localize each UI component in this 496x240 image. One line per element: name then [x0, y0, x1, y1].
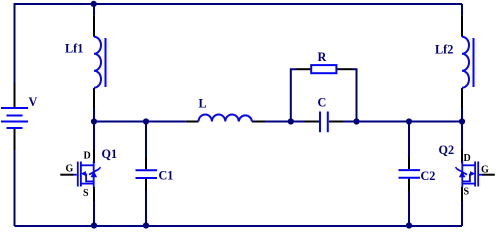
svg-text:Q1: Q1 [102, 147, 118, 161]
svg-text:G: G [481, 165, 489, 176]
svg-text:L: L [199, 97, 207, 111]
svg-text:C2: C2 [421, 169, 436, 183]
svg-text:S: S [464, 187, 470, 198]
svg-text:Lf1: Lf1 [65, 42, 83, 56]
svg-text:D: D [464, 153, 471, 164]
svg-text:S: S [83, 188, 89, 199]
svg-text:V: V [29, 95, 38, 109]
svg-text:C1: C1 [159, 169, 174, 183]
svg-text:G: G [66, 164, 74, 175]
svg-text:R: R [318, 50, 327, 64]
svg-text:D: D [84, 151, 91, 162]
svg-text:Q2: Q2 [439, 143, 455, 157]
svg-text:Lf2: Lf2 [435, 43, 453, 57]
svg-text:C: C [318, 96, 327, 110]
